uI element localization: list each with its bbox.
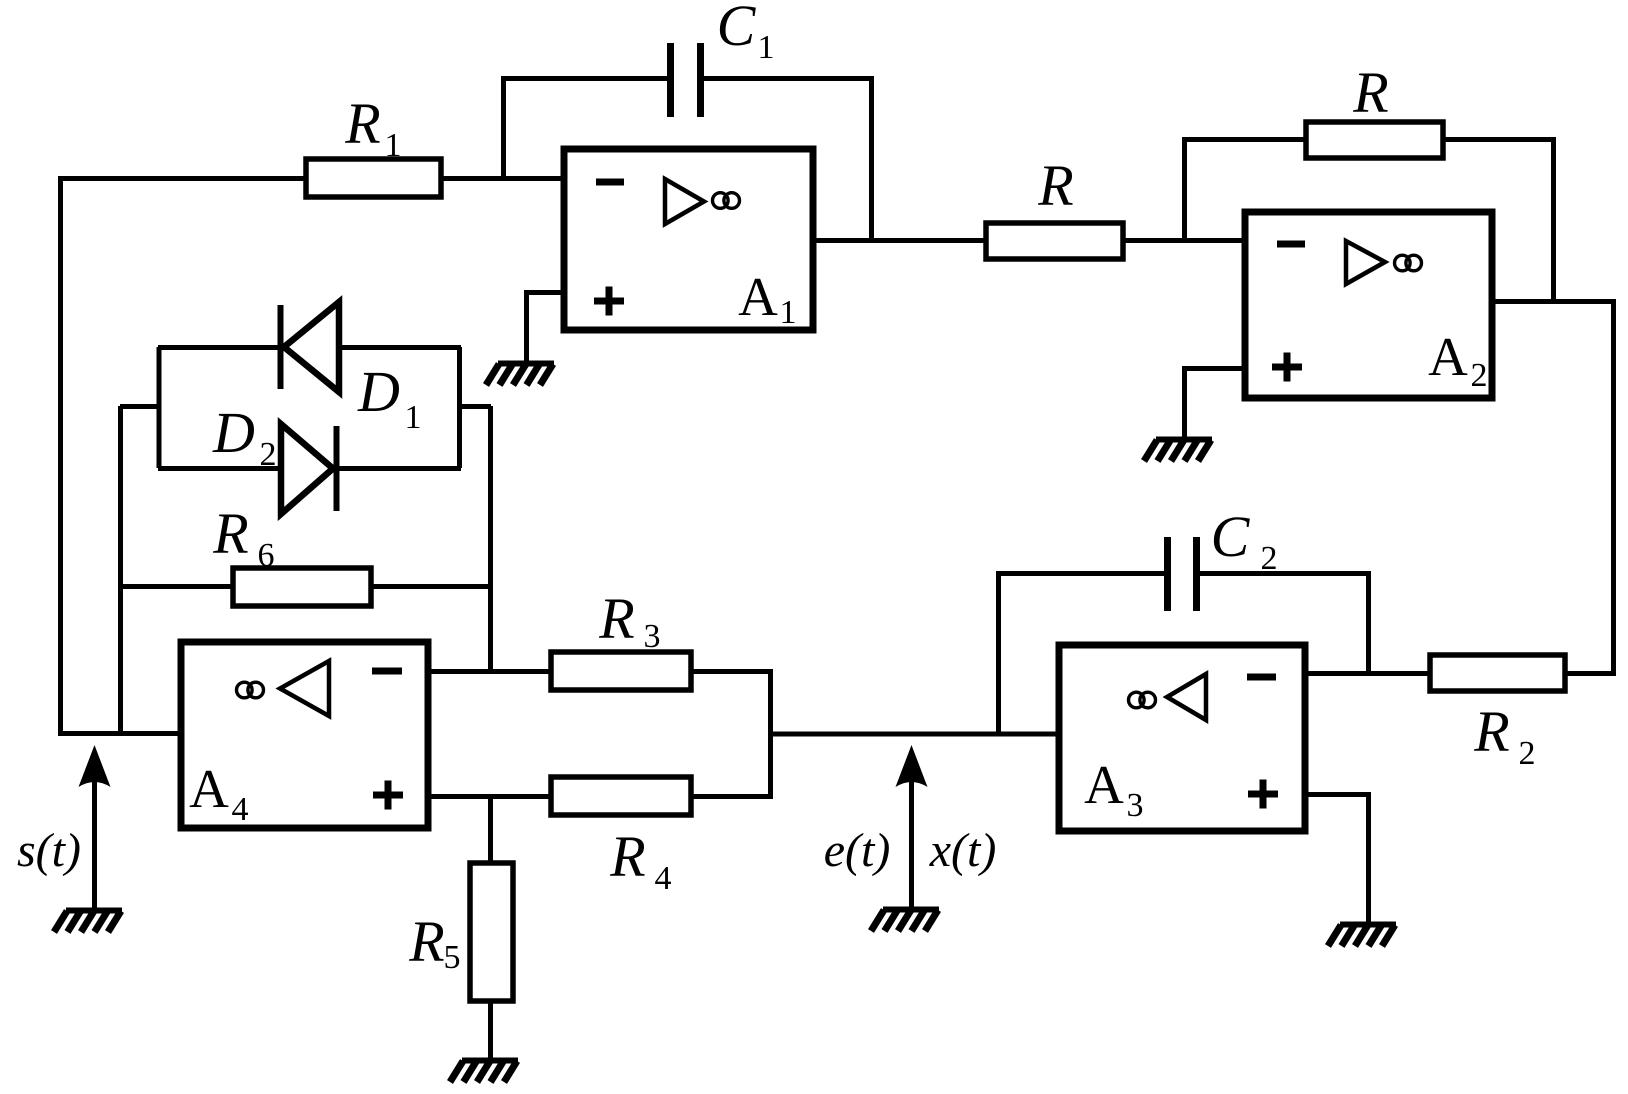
wire: C2 right branch down to A3 minus node [1200,574,1369,674]
svg-text:2: 2 [1261,540,1278,577]
wire: D-box right bracket [459,347,491,468]
resistor R (input of A2) [986,153,1123,259]
resistor R1 [306,91,441,197]
wire: D2 left lead [158,466,281,471]
resistor R (feedback of A2) [1306,60,1443,158]
wire: diode-network right rail down to R3 node [488,406,493,671]
svg-text:C: C [1211,504,1251,569]
diode D2 (pointing right) [212,400,336,514]
svg-text:2: 2 [1471,357,1488,394]
resistor R2 [1430,655,1565,772]
wire: C1 left branch down to R1/A1 node [504,79,668,179]
wire: R6 right lead [371,584,491,589]
wire: A2 output right and down to R2 [1492,302,1614,674]
svg-text:C: C [717,0,757,58]
ground below R5 [450,1061,518,1083]
svg-text:R: R [1352,60,1388,125]
svg-text:R: R [1037,153,1073,218]
svg-text:s(t): s(t) [17,824,81,877]
wire: feedback R right down to A2 output [1443,140,1554,302]
svg-text:1: 1 [385,127,402,164]
svg-text:D: D [212,400,255,465]
svg-text:R: R [1473,699,1509,764]
svg-text:4: 4 [655,860,672,897]
op-amp A2 [1245,212,1492,398]
svg-text:e(t): e(t) [824,824,891,877]
svg-text:R: R [598,586,634,651]
wire: R4 right lead [691,794,773,799]
svg-text:1: 1 [758,29,775,66]
ground below A2 [1144,440,1212,462]
wire: D2 right lead [338,466,461,471]
op-amp A1 [564,149,813,331]
svg-text:R: R [212,501,248,566]
wire: A2 non-inverting input to ground [1185,369,1246,438]
op-amp A4 (mirrored) [181,642,428,828]
resistor R6 [212,501,371,606]
node x(t) arrow [824,745,997,907]
capacitor C2 [1168,504,1278,611]
svg-text:A: A [738,266,778,327]
svg-text:A: A [1428,326,1468,387]
wire: R6 left lead [120,584,233,589]
svg-text:R: R [344,91,380,156]
wire: D1 left lead [158,345,278,350]
wire: R1 to A1 inverting input [441,176,566,181]
wire: A2 feedback branch up [1185,140,1307,241]
wire: R1 left lead, far-left vertical rail, A4 output wire [61,179,307,734]
svg-text:1: 1 [780,294,797,331]
ground below A3 [1328,925,1396,947]
resistor R4 [551,777,691,897]
wire: D1 right lead [340,345,461,350]
wire: A4 inverting input to R3 [428,669,551,674]
svg-text:A: A [189,758,229,819]
svg-text:6: 6 [258,537,275,574]
svg-text:2: 2 [1519,735,1536,772]
wire: R3/R4 right junction vertical [768,671,773,796]
wire: R to A2 inverting input [1123,238,1245,243]
svg-text:2: 2 [260,436,277,473]
svg-text:3: 3 [1127,787,1144,824]
svg-text:R: R [609,824,645,889]
wire: main bottom node wire to A3 input [770,732,1059,737]
node s(t) arrow [17,745,110,908]
svg-text:1: 1 [405,399,422,436]
wire: C2 left branch down to x(t) node wire [999,574,1165,735]
wire: A1 output to R [813,238,986,243]
svg-text:x(t): x(t) [929,824,997,877]
wire: D-box left bracket [120,347,159,468]
svg-text:R: R [408,909,444,974]
wire: R3 right lead [691,669,773,674]
svg-text:3: 3 [644,618,661,655]
wire: A4 non-inverting input to R4 [428,794,551,799]
resistor R5 (vertical) [408,863,513,1001]
ground below s(t) source [54,911,122,933]
ground below x(t) source [871,910,939,932]
wire: C1 right branch down to A1 output [704,79,872,241]
wire: R4 node down to R5 [488,796,493,863]
capacitor C1 [671,0,775,117]
svg-text:5: 5 [444,939,461,976]
wire: R2 to A3 inverting input [1305,671,1430,676]
svg-text:4: 4 [232,791,249,828]
op-amp A3 (mirrored) [1059,645,1305,831]
wire: A1 non-inverting input to ground [527,293,567,362]
ground below A1 [486,364,554,386]
wire: R5 bottom lead to ground [488,1001,493,1058]
wire: diode-network vertical rail (left, x=120) [118,406,123,733]
resistor R3 [551,586,691,690]
diode D1 (pointing left) [281,302,422,436]
svg-text:D: D [357,359,400,424]
svg-text:A: A [1084,754,1124,815]
wire: A3 non-inverting input to ground [1305,795,1369,923]
